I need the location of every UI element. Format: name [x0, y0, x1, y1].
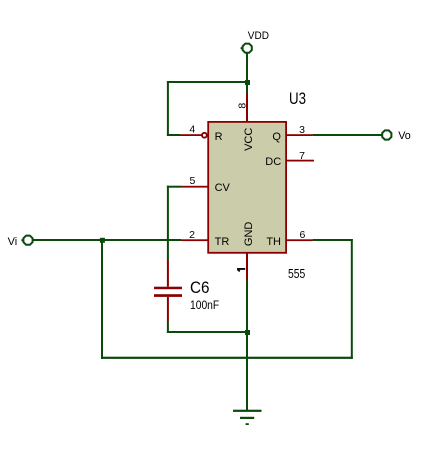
svg-text:3: 3	[299, 124, 305, 136]
svg-text:R: R	[215, 131, 223, 143]
svg-text:Vo: Vo	[398, 130, 411, 142]
ground symbol	[233, 410, 262, 425]
capacitor C6 bottom lead	[167, 297, 169, 321]
svg-text:2: 2	[189, 229, 195, 241]
svg-text:Vi: Vi	[8, 236, 18, 248]
svg-text:VDD: VDD	[248, 30, 269, 42]
wire pin5 down to capacitor	[167, 186, 169, 261]
svg-text:Q: Q	[272, 131, 281, 143]
pin 3 stub (Q)	[287, 134, 313, 136]
svg-text:6: 6	[299, 229, 305, 241]
wire VDD to pin 8	[246, 54, 248, 94]
pin 2 stub (TR)	[181, 239, 208, 241]
wire pin 6 to right vertical	[313, 239, 353, 241]
svg-text:U3: U3	[289, 89, 306, 108]
svg-text:TH: TH	[266, 236, 281, 248]
wire junction to left	[167, 81, 248, 83]
svg-text:CV: CV	[215, 182, 231, 194]
svg-text:TR: TR	[215, 236, 230, 248]
terminal Vi	[8, 236, 33, 248]
capacitor C6 bottom plate	[154, 294, 182, 297]
capacitor C6 top plate	[154, 287, 182, 290]
pin 4 stub (R)	[180, 134, 202, 136]
svg-text:8: 8	[236, 103, 248, 109]
svg-text:4: 4	[189, 123, 195, 135]
wire bottom horizontal	[101, 357, 353, 359]
pin 8 stub (VCC)	[246, 94, 248, 122]
wire Vi junction down	[101, 239, 103, 359]
wire Vi to pin 2	[33, 239, 181, 241]
junction cap/GND node	[245, 330, 250, 335]
svg-text:VCC: VCC	[243, 128, 255, 151]
pin 7 stub (DC)	[287, 160, 314, 162]
IC U3 body (555)	[208, 122, 286, 253]
svg-text:7: 7	[299, 150, 305, 162]
wire pin 1 down to ground	[246, 280, 248, 411]
svg-text:DC: DC	[265, 156, 281, 168]
pin 4 inversion bubble	[202, 133, 207, 138]
wire right vertical up to pin 6	[351, 239, 353, 359]
wire to pin 4	[167, 134, 180, 136]
svg-text:555: 555	[288, 267, 305, 281]
junction VDD node	[245, 80, 250, 85]
pin 5 stub (CV)	[181, 186, 208, 188]
svg-text:5: 5	[190, 175, 196, 187]
svg-text:C6: C6	[190, 278, 210, 297]
junction Vi node	[100, 238, 105, 243]
svg-text:GND: GND	[243, 222, 255, 247]
pin 6 stub (TH)	[287, 239, 313, 241]
capacitor C6 top lead	[167, 260, 169, 287]
wire down to pin 4 row	[167, 81, 169, 136]
pin 1 stub (GND)	[246, 254, 248, 280]
svg-text:100nF: 100nF	[190, 298, 219, 312]
terminal VDD	[241, 30, 269, 53]
pin number 1 (rotated)	[237, 268, 245, 272]
wire pin 5	[167, 186, 181, 188]
terminal Vo	[382, 130, 411, 142]
wire pin 3 to Vo	[313, 134, 382, 136]
wire capacitor bottom to junction	[167, 321, 169, 333]
